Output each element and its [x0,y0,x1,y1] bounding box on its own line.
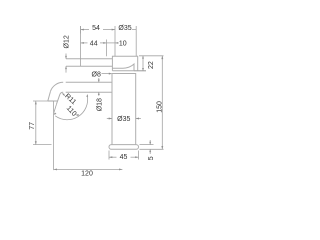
svg-text:77: 77 [29,122,36,130]
ext line y144.6 left [33,144,52,146]
spout bottom line [66,91,112,93]
dia 18 label [98,92,100,96]
svg-text:Ø35: Ø35 [117,116,130,123]
ext line x136 [135,26,137,56]
svg-text:Ø35: Ø35 [118,25,131,32]
svg-text:Ø8: Ø8 [92,72,101,79]
head bottom line [112,70,146,72]
dim 45 [108,151,110,160]
dim 5 [140,144,154,146]
spout inner bend arc [60,92,63,94]
spout top line [66,81,112,83]
outlet opening line [48,100,58,102]
dim 22 [139,55,164,57]
lever tube bottom [66,65,112,67]
dim 120 [53,101,55,170]
lever skirt curve [112,64,134,71]
head cap [112,56,137,71]
ext line x106.6 [106,40,108,57]
dia 35 mid dim [107,118,112,120]
dim 10 [107,42,115,44]
svg-text:5: 5 [148,156,155,160]
spout outer bend arc [51,82,64,91]
base plate [109,145,139,150]
svg-text:54: 54 [92,25,100,32]
ext line x80.5 [80,26,82,66]
angle arc 110 [55,96,87,120]
svg-text:22: 22 [148,61,155,69]
svg-text:150: 150 [156,101,163,113]
angle ray (outlet axis extended) [54,104,57,113]
svg-text:Ø12: Ø12 [64,35,71,48]
svg-text:10: 10 [119,40,127,47]
spout inner straight edge [57,95,60,105]
body column [112,74,136,145]
ext line bottom right y149.3 [140,148,164,150]
dim 54 [80,26,82,34]
svg-text:44: 44 [90,40,98,47]
svg-text:Ø18: Ø18 [96,98,103,111]
dim 77 [33,100,54,102]
dim 44 [81,42,88,44]
spout outer straight edge [48,91,51,101]
ext line x115 [114,26,116,56]
svg-text:120: 120 [81,170,93,177]
lever tube top [66,58,112,60]
dim 150 [161,56,163,150]
svg-text:45: 45 [120,154,128,161]
